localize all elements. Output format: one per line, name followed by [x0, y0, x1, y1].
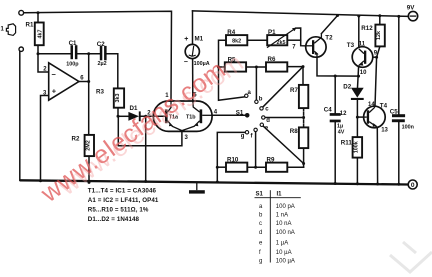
svg-text:100n: 100n [402, 124, 414, 130]
capacitor C5 [390, 109, 414, 131]
node C5 rail [397, 15, 400, 18]
wire T3 collector from rail [358, 16, 360, 48]
resistor R8 [290, 127, 309, 148]
wire R4 left vertical [219, 40, 245, 100]
wire C4 top drop [334, 76, 336, 113]
svg-text:10 µA: 10 µA [276, 250, 292, 256]
svg-text:D1...D2 = 1N4148: D1...D2 = 1N4148 [88, 216, 140, 223]
svg-text:3k3: 3k3 [115, 94, 121, 103]
resistor R7 [290, 85, 308, 108]
svg-text:R10: R10 [227, 156, 239, 163]
svg-text:4k7: 4k7 [37, 30, 43, 39]
svg-text:100 µA: 100 µA [276, 259, 295, 265]
switch S1 [236, 90, 270, 140]
wire R1 top stub [37, 13, 39, 23]
wire D1 cathode to T1a base [141, 115, 165, 117]
op-amp A1 [43, 63, 84, 100]
svg-text:C4: C4 [324, 107, 332, 114]
svg-text:100p: 100p [66, 61, 79, 67]
transistor T3 [347, 41, 378, 76]
capacitor C4 [324, 107, 345, 136]
svg-text:T3: T3 [347, 42, 355, 49]
resistor R9 [266, 156, 287, 172]
wire R9 right [287, 166, 303, 168]
wire C2 right to R3 top [107, 54, 118, 89]
svg-text:4V: 4V [338, 130, 345, 136]
node D2 R11 [356, 116, 359, 119]
wire T1 pin3 loop to R3 node [118, 116, 182, 146]
wire top-left rail [24, 11, 172, 101]
wire D2 cathode to node [356, 100, 358, 117]
wire D1 node to ground [145, 116, 147, 181]
node R3 D1 [117, 115, 120, 118]
node R1 C1 [37, 52, 40, 55]
diode D2 [343, 84, 363, 100]
wire T4 emitter to ground [376, 127, 378, 184]
node b tap [255, 66, 258, 69]
wire rail2 corner to M1 top [192, 11, 194, 45]
svg-text:R3: R3 [96, 89, 104, 96]
node T3 rail [357, 15, 360, 18]
svg-text:C1: C1 [69, 40, 77, 47]
svg-text:C2: C2 [97, 41, 105, 48]
svg-text:M1: M1 [195, 36, 204, 43]
node R5 left [217, 66, 220, 69]
svg-text:13: 13 [381, 128, 388, 134]
svg-text:10: 10 [360, 70, 367, 76]
svg-text:12k: 12k [376, 31, 382, 40]
wire D1 anode [118, 115, 128, 117]
node R1 rail [37, 11, 40, 14]
svg-text:1 nA: 1 nA [276, 213, 288, 219]
node C5 gnd [397, 183, 400, 186]
svg-text:8k2: 8k2 [232, 39, 241, 45]
wire contact c diagonal [263, 67, 303, 108]
resistor R6 [266, 56, 287, 72]
wire contact d line [265, 117, 304, 119]
wire C1 to C2 node [77, 53, 100, 55]
svg-text:D1: D1 [130, 105, 138, 112]
transistor pair T1 oval [153, 93, 218, 141]
svg-text:S1: S1 [236, 109, 244, 116]
wire T1 pin4 to S1 pole [212, 114, 245, 116]
transistor T4 [340, 102, 389, 133]
svg-text:100 nA: 100 nA [276, 230, 295, 236]
svg-text:R8: R8 [290, 128, 298, 135]
svg-text:R12: R12 [361, 25, 373, 32]
input terminal top [19, 10, 24, 15]
wire R10 left [217, 166, 226, 168]
input terminal bottom [19, 47, 23, 51]
wire T3 emitter to D2 [358, 66, 359, 87]
wire C5 top vertical [398, 16, 400, 114]
svg-text:+: + [184, 36, 188, 43]
wire T2 emitter run [317, 57, 359, 76]
svg-text:T1...T4 = IC1 = CA3046: T1...T4 = IC1 = CA3046 [88, 188, 157, 195]
wire node to T4 base [357, 116, 363, 118]
svg-text:1 µA: 1 µA [276, 241, 288, 247]
potentiometer P1 [267, 28, 297, 48]
wire R11 bottom to ground [356, 158, 358, 184]
battery terminal 9V [407, 5, 418, 21]
svg-text:R11: R11 [341, 140, 353, 147]
transistor T1b [182, 101, 212, 130]
svg-text:S1: S1 [256, 191, 264, 197]
wire node to C1 [38, 53, 71, 55]
node R11 gnd [356, 182, 359, 185]
resistor R10 [226, 156, 247, 172]
svg-text:b: b [259, 97, 263, 103]
table S1 I1 [255, 190, 301, 264]
node C1 C2 [87, 52, 90, 55]
svg-text:R5...R10 = 511Ω, 1%: R5...R10 = 511Ω, 1% [88, 207, 149, 214]
node D1 base [144, 115, 147, 118]
node R9 R10 f [254, 166, 257, 169]
wire rail2 top [193, 11, 408, 17]
wire P1 wiper elbow to T2 base [296, 28, 307, 46]
wire contact g line to ground [217, 132, 245, 182]
svg-text:T2: T2 [325, 35, 333, 42]
wire R9 to R10 link [247, 166, 266, 168]
svg-text:14: 14 [368, 102, 375, 108]
svg-text:10 nA: 10 nA [276, 221, 292, 227]
battery terminal 0V [408, 180, 417, 189]
svg-text:12: 12 [340, 111, 347, 117]
node T4 gnd [376, 183, 379, 186]
watermark gray chevron [390, 242, 432, 272]
node R10 gnd [216, 181, 219, 184]
svg-text:A1 = IC2 = LF411, OP41: A1 = IC2 = LF411, OP41 [88, 197, 159, 204]
node D1 gnd [144, 180, 147, 183]
wire input lower terminal to ground [19, 52, 21, 181]
node T2 T3 emitter [357, 75, 360, 78]
resistor R12 [361, 25, 385, 47]
svg-text:R2: R2 [72, 135, 80, 142]
svg-text:−: − [184, 59, 188, 66]
svg-text:C5: C5 [390, 109, 398, 116]
wire R1 bottom to node [37, 45, 39, 54]
wire contact b drop [255, 67, 257, 100]
wire op-amp pin3 to ground [41, 96, 49, 181]
wire R4 to P1 [247, 39, 267, 41]
svg-text:2k5: 2k5 [277, 40, 286, 46]
svg-text:c: c [259, 221, 262, 227]
wire R6 right to R7 top [287, 67, 303, 85]
svg-text:g: g [259, 259, 262, 265]
wire C4 bottom to ground [334, 122, 336, 183]
svg-text:D2: D2 [343, 84, 351, 91]
wire T2 collector to rail [321, 16, 337, 34]
svg-text:100 pA: 100 pA [276, 204, 295, 210]
svg-text:2µ2: 2µ2 [98, 61, 107, 67]
wire feedback vertical to R2 [88, 54, 90, 135]
ground symbol [189, 183, 205, 194]
node C4 top [334, 75, 337, 78]
wire P1 right stub [287, 39, 300, 41]
wire R2 bottom to ground [88, 156, 90, 182]
svg-text:100k: 100k [353, 141, 359, 153]
capacitor C2 [97, 41, 107, 67]
node pin3 gnd [39, 179, 42, 182]
resistor R2 [72, 135, 95, 156]
wire C5 bottom to ground [398, 122, 400, 184]
node R8 R9 e [302, 162, 305, 165]
node R12 rail [378, 14, 381, 17]
wire R7 to R8 dashed [303, 108, 305, 127]
node T3 base [375, 56, 378, 59]
wire op-amp output [79, 81, 89, 83]
wire contact e diagonal [263, 126, 303, 163]
svg-text:I1: I1 [277, 191, 283, 197]
resistor R3 [96, 88, 124, 107]
svg-text:T4: T4 [380, 102, 388, 109]
resistor R4 [226, 29, 247, 45]
wire R12 bottom to T3 base node [377, 46, 380, 57]
wire op-amp pin2 [38, 54, 49, 72]
node T2 rail [336, 14, 339, 17]
wire R11 top [356, 117, 358, 137]
diode D1 [128, 105, 151, 122]
svg-text:R9: R9 [267, 156, 275, 163]
wire M1 bottom to T1 pin5 [192, 59, 194, 102]
notes text block [88, 188, 159, 224]
svg-text:9V: 9V [407, 5, 415, 12]
wire R8 bottom [303, 148, 305, 167]
svg-text:0: 0 [411, 182, 415, 189]
resistor R5 [225, 56, 246, 71]
svg-text:+: + [52, 86, 57, 95]
svg-text:R1: R1 [26, 21, 34, 28]
svg-text:R4: R4 [227, 29, 235, 36]
svg-text:d: d [259, 230, 262, 236]
node output [87, 80, 90, 83]
transistor T1a [165, 101, 182, 131]
wire node to T4 collector [375, 57, 377, 106]
svg-text:R7: R7 [290, 87, 298, 94]
svg-text:11: 11 [359, 41, 366, 47]
svg-text:R6: R6 [268, 56, 276, 63]
capacitor C1 [66, 40, 79, 68]
wire contact f drop [255, 132, 257, 168]
node R7 R8 d [302, 116, 305, 119]
node R10 left [216, 166, 219, 169]
meter M1 [184, 36, 210, 67]
wire R12 top stub [379, 16, 381, 25]
svg-text:P1: P1 [268, 29, 276, 36]
svg-text:d: d [266, 118, 270, 124]
svg-text:g: g [241, 133, 245, 139]
transistor T2 [292, 34, 333, 58]
node C4 gnd [334, 182, 337, 185]
input plug J1 [1, 24, 16, 36]
resistor R11 [341, 137, 362, 158]
wire T3 base [366, 56, 376, 58]
node R2 gnd [88, 181, 91, 184]
wire R3 bottom to D1 node [117, 108, 119, 117]
node R6 R7 [302, 65, 305, 68]
wire R5 to R6 link [246, 66, 266, 68]
ground rail [20, 180, 409, 184]
svg-text:−: − [52, 70, 57, 79]
wire R5 left stub [219, 66, 225, 68]
resistor R1 [26, 21, 44, 45]
